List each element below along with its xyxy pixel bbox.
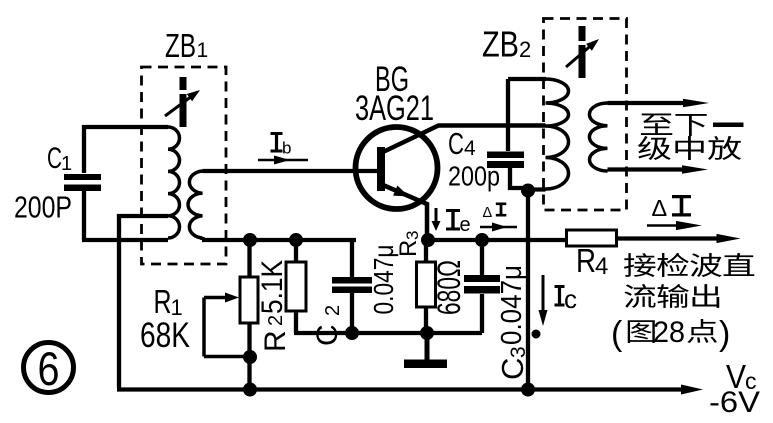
svg-text:28: 28	[653, 316, 685, 349]
svg-text:Δ: Δ	[483, 205, 493, 221]
resistor R1 68K (with slider arrow)	[247, 240, 251, 389]
emitter net wire	[427, 239, 722, 241]
svg-text:4: 4	[464, 137, 476, 160]
capacitor C4	[508, 79, 524, 188]
ZB2 secondary winding	[589, 103, 607, 171]
wire: secondary bottom to bias net	[202, 237, 356, 240]
svg-text:-6V: -6V	[709, 386, 760, 419]
wire: output top	[608, 101, 687, 105]
capacitor C2	[350, 240, 354, 333]
wire: output bottom	[608, 167, 686, 171]
svg-text:e: e	[460, 214, 471, 236]
svg-text:200p: 200p	[448, 161, 500, 192]
wire: base lead	[203, 169, 378, 173]
svg-text:R: R	[259, 330, 292, 352]
label C3 0.047u (rotated)	[495, 265, 530, 380]
label C4	[448, 126, 500, 192]
label Ic + arrow	[555, 284, 578, 314]
svg-text:R: R	[395, 240, 422, 257]
svg-text:R: R	[576, 242, 596, 279]
label ZB2	[482, 24, 531, 65]
svg-text:ZB: ZB	[482, 24, 519, 65]
svg-text:C: C	[448, 126, 464, 161]
ZB1 secondary winding	[188, 171, 202, 238]
label delta-I small + arrow	[483, 203, 507, 222]
svg-text:C: C	[47, 142, 62, 175]
label ZB1	[165, 27, 208, 64]
label C1	[47, 142, 72, 175]
transistor BG 3AG21	[356, 127, 438, 209]
trimmer capacitor of ZB1	[180, 77, 187, 127]
svg-text:5.1K: 5.1K	[256, 260, 289, 314]
svg-text:c: c	[564, 284, 577, 314]
label R2 5.1K (rotated)	[256, 260, 292, 352]
transformer ZB1 shield box	[142, 67, 227, 264]
svg-text:4: 4	[595, 253, 608, 280]
bias net wire with junction dots	[243, 233, 303, 247]
svg-text:Δ: Δ	[652, 195, 668, 221]
ZB1 primary winding	[168, 127, 180, 238]
resistor R2 5.1K	[294, 240, 298, 333]
svg-text:C: C	[311, 324, 344, 346]
ground symbol	[425, 333, 430, 361]
svg-text:2: 2	[519, 37, 531, 62]
ZB2 primary winding	[546, 79, 569, 189]
svg-text:1: 1	[61, 153, 72, 175]
arrow Vc	[681, 385, 703, 395]
resistor R4	[567, 230, 617, 246]
stray mark near C3 label	[532, 330, 541, 339]
label Ib	[271, 132, 292, 158]
svg-text:3AG21: 3AG21	[355, 89, 434, 128]
collector lead	[383, 126, 546, 153]
svg-text:68K: 68K	[140, 316, 190, 355]
label R3 (rotated)	[395, 231, 422, 257]
label BG	[355, 60, 434, 128]
emitter lead	[383, 185, 427, 240]
svg-text:200P: 200P	[14, 190, 72, 225]
svg-text:ZB: ZB	[165, 27, 196, 64]
resistor R3 680 ohm	[424, 240, 428, 333]
svg-text:0.047μ: 0.047μ	[496, 265, 528, 345]
capacitor C3	[480, 240, 484, 333]
label 680ohm (rotated)	[431, 260, 467, 315]
svg-text:(: (	[611, 315, 623, 353]
transformer ZB2 shield box	[544, 19, 627, 211]
svg-text:R: R	[154, 283, 172, 320]
wire: ground net	[294, 331, 482, 335]
svg-text:1: 1	[197, 39, 209, 62]
label C2 (rotated)	[311, 245, 399, 347]
label: detector DC output (Chinese)	[624, 253, 754, 343]
label Ie + arrow	[446, 209, 471, 236]
label 200P	[14, 190, 72, 225]
svg-text:b: b	[282, 139, 291, 158]
svg-text:6: 6	[38, 342, 60, 395]
wire: ZB2 bottom to C4	[527, 190, 546, 390]
trimmer capacitor of ZB2	[579, 26, 586, 78]
svg-text:680Ω: 680Ω	[431, 260, 467, 315]
figure number 6	[24, 343, 74, 393]
svg-text:C: C	[495, 358, 530, 380]
svg-text:2: 2	[322, 305, 344, 316]
label: to next IF stage (Chinese)	[638, 113, 743, 160]
label R4	[576, 242, 608, 280]
capacitor C1	[84, 127, 168, 173]
primary tap wire to bottom rail / bottom supply rail	[117, 216, 688, 390]
svg-text:2: 2	[265, 315, 287, 326]
svg-text:): )	[719, 315, 730, 353]
wire: top of ZB2 tank	[508, 77, 546, 81]
label R1	[140, 283, 190, 355]
svg-text:3: 3	[403, 231, 422, 240]
arrow Ib	[258, 159, 308, 162]
label Vc -6V	[709, 358, 760, 419]
label delta-I (right) + arrow	[652, 195, 692, 221]
